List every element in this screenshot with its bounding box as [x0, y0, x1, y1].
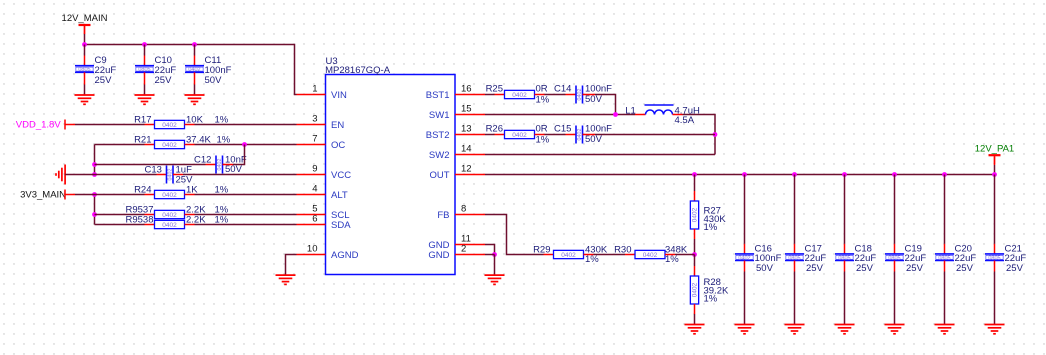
wire C15 right to SW2 column	[583, 134, 596, 136]
wire C18 bottom	[844, 261, 846, 272]
svg-text:0402: 0402	[561, 252, 576, 259]
svg-text:50V: 50V	[205, 75, 223, 86]
pin 7 OC left	[297, 144, 326, 146]
wire R29 to R30	[584, 254, 594, 256]
ground left of C13 (rotated)	[64, 165, 66, 185]
wire R21 to OC pin 7	[185, 144, 195, 146]
svg-text:0805: 0805	[838, 255, 850, 261]
wire gnd to C13	[65, 174, 156, 176]
svg-text:VCC: VCC	[331, 170, 351, 181]
node junction OUT rail at C19	[892, 172, 897, 177]
resistor R30 348K 1%	[635, 250, 665, 258]
svg-text:0805: 0805	[788, 255, 800, 261]
svg-text:R9538: R9538	[126, 215, 154, 226]
resistor R25 0R 1%	[505, 90, 535, 98]
svg-text:0402: 0402	[512, 92, 527, 99]
svg-text:0805: 0805	[888, 255, 900, 261]
svg-text:100nF: 100nF	[585, 124, 612, 135]
wire BST2 to R26	[485, 134, 495, 136]
wire 12V_MAIN vertical into top rail	[84, 26, 86, 34]
svg-text:1%: 1%	[704, 222, 718, 233]
op-amp U1 regulator U3 MP28167GQ-A body	[326, 75, 456, 275]
svg-text:AGND: AGND	[331, 250, 359, 261]
svg-text:25V: 25V	[155, 75, 173, 86]
pin 15 SW1 right	[455, 114, 485, 116]
wire 12V_PA1 into rail	[994, 156, 996, 165]
svg-text:0402: 0402	[738, 255, 750, 261]
svg-text:VDD_1.8V: VDD_1.8V	[16, 120, 62, 131]
svg-text:0805: 0805	[138, 67, 150, 73]
svg-text:R25: R25	[486, 84, 503, 95]
node junction OUT/R27	[692, 172, 697, 177]
wire R25 to C14	[535, 94, 545, 96]
svg-text:50V: 50V	[225, 164, 243, 175]
wire C9 top	[84, 45, 86, 56]
svg-text:0402: 0402	[188, 67, 200, 73]
svg-text:13: 13	[461, 124, 472, 135]
resistor R24 1K 1%	[155, 190, 185, 198]
wire C10 bottom	[144, 72, 146, 84]
wire C16 bottom	[744, 261, 746, 272]
svg-text:0402: 0402	[512, 132, 527, 139]
svg-text:0402: 0402	[162, 142, 177, 149]
svg-text:0402: 0402	[643, 252, 658, 259]
wire SW2 pin 14	[485, 154, 715, 156]
wire R24 to ALT pin 4	[185, 194, 195, 196]
svg-text:6: 6	[312, 214, 317, 225]
svg-text:SW1: SW1	[429, 110, 450, 121]
ground below C16	[735, 324, 755, 326]
wire R26 to C15	[535, 134, 545, 136]
wire C16 top	[744, 175, 746, 244]
pin 3 EN left	[297, 124, 326, 126]
capacitor C14 100nF 50V	[576, 86, 583, 104]
ground below C17	[785, 324, 805, 326]
wire R27 to FB node	[694, 229, 696, 239]
node junction SW1/C14	[613, 112, 618, 117]
svg-text:L1: L1	[625, 105, 636, 116]
node junction x94 C12	[92, 162, 97, 167]
wire C18 top	[844, 175, 846, 244]
wire C9 bottom	[84, 72, 86, 84]
svg-text:R29: R29	[533, 245, 550, 256]
resistor R21 37.4K 1%	[155, 140, 185, 148]
wire C21 top	[994, 175, 996, 244]
wire left 3V3 column x94	[94, 195, 96, 225]
ground below C11	[185, 94, 205, 96]
wire GND pin 2 to ground	[485, 254, 495, 256]
port 12V_PA1	[989, 154, 1001, 156]
svg-text:EN: EN	[331, 120, 344, 131]
wire column corner to R9538	[95, 224, 145, 226]
wire OUT to R27	[694, 175, 696, 192]
wire C17 top	[794, 175, 796, 244]
wire left column top corner to R21	[95, 144, 145, 146]
svg-text:VIN: VIN	[331, 90, 347, 101]
svg-text:0R: 0R	[536, 124, 548, 135]
svg-text:MP28167GQ-A: MP28167GQ-A	[325, 65, 391, 76]
svg-text:50V: 50V	[756, 263, 774, 274]
wire L1 right down to SW2	[673, 114, 683, 116]
svg-text:25V: 25V	[906, 263, 924, 274]
capacitor C11 100nF 50V	[185, 66, 204, 73]
node junction OUT rail at C16	[742, 172, 747, 177]
pin 2 GND right	[455, 254, 485, 256]
svg-text:OUT: OUT	[429, 170, 449, 181]
wire top 12V rail to VIN	[85, 45, 297, 95]
capacitor C19 22uF 25V	[885, 254, 904, 261]
svg-text:12: 12	[461, 164, 472, 175]
wire SW1 to L1	[485, 114, 635, 116]
svg-text:14: 14	[461, 144, 472, 155]
ground below C18	[835, 324, 855, 326]
capacitor C15 100nF 50V	[576, 126, 583, 144]
svg-text:R21: R21	[134, 135, 151, 146]
node junction x94 3V3 row	[92, 192, 97, 197]
svg-text:100nF: 100nF	[585, 84, 612, 95]
svg-text:1%: 1%	[536, 135, 550, 146]
wire C17 bottom	[794, 261, 796, 272]
pin 14 SW2 right	[455, 154, 485, 156]
capacitor C10 22uF 25V	[135, 66, 154, 73]
pin 10 AGND left	[297, 254, 326, 256]
node junction FB divider	[692, 252, 697, 257]
wire R9537 to SCL pin 5	[185, 214, 195, 216]
svg-text:4: 4	[312, 184, 317, 195]
ground below GND pins	[485, 274, 505, 276]
wire C20 bottom	[944, 261, 946, 272]
pin 12 OUT right	[455, 174, 485, 176]
svg-text:0805: 0805	[78, 67, 90, 73]
svg-text:10: 10	[307, 244, 318, 255]
pin 13 BST2 right	[455, 134, 485, 136]
svg-text:0402: 0402	[167, 169, 173, 181]
wire R9538 to SDA pin 6	[185, 224, 195, 226]
capacitor C13 1uF 25V	[167, 166, 174, 184]
ground below C19	[885, 324, 905, 326]
svg-text:25V: 25V	[806, 263, 824, 274]
svg-text:8: 8	[461, 204, 466, 215]
svg-text:25V: 25V	[95, 75, 113, 86]
svg-text:ALT: ALT	[331, 190, 348, 201]
wire C19 bottom	[894, 261, 896, 272]
wire C11 top	[194, 45, 196, 56]
node junction R21/C12 at OC	[242, 142, 247, 147]
svg-text:0402: 0402	[577, 89, 583, 101]
svg-text:25V: 25V	[1006, 263, 1024, 274]
svg-text:SDA: SDA	[331, 220, 351, 231]
svg-text:GND: GND	[428, 250, 449, 261]
wire C10 top	[144, 45, 146, 56]
wire left ground column x94	[94, 145, 96, 175]
node junction OUT rail at C21/12V_PA1	[992, 172, 997, 177]
svg-text:R26: R26	[486, 124, 503, 135]
ground below C20	[935, 324, 955, 326]
svg-text:SW2: SW2	[429, 150, 450, 161]
svg-text:R24: R24	[134, 185, 151, 196]
svg-text:16: 16	[461, 84, 472, 95]
ground below C10	[135, 94, 155, 96]
svg-text:C13: C13	[144, 165, 161, 176]
svg-text:25V: 25V	[956, 263, 974, 274]
svg-text:0402: 0402	[692, 282, 699, 297]
svg-text:0805: 0805	[988, 255, 1000, 261]
svg-text:15: 15	[461, 104, 472, 115]
node junction 12V rail at C9	[82, 42, 87, 47]
pin 4 ALT left	[297, 194, 326, 196]
node junction SW2 column / C15	[713, 132, 718, 137]
pin 16 BST1 right	[455, 94, 485, 96]
wire C19 top	[894, 175, 896, 244]
resistor R17 10K 1%	[155, 120, 185, 128]
node junction 12V rail at C11	[192, 42, 197, 47]
svg-text:0R: 0R	[536, 84, 548, 95]
svg-text:1%: 1%	[704, 294, 718, 305]
wire column to R9537	[95, 214, 145, 216]
node junction 12V rail at C10	[142, 42, 147, 47]
node junction x94 SCL row	[92, 212, 97, 217]
svg-text:0402: 0402	[217, 159, 223, 171]
svg-text:9: 9	[312, 164, 317, 175]
wire C14 down to SW1	[583, 94, 596, 96]
svg-text:7: 7	[312, 134, 317, 145]
node junction GND pins	[492, 252, 497, 257]
resistor R27 430K 1%	[690, 201, 698, 229]
wire 3V3_MAIN to R24	[75, 194, 145, 196]
ground below C9	[75, 94, 95, 96]
node junction OUT rail at C20	[942, 172, 947, 177]
svg-text:12V_PA1: 12V_PA1	[975, 144, 1014, 155]
wire FB node to R28	[694, 255, 696, 267]
pin 6 SDA left	[297, 224, 326, 226]
wire VDD_1.8V to R17	[75, 124, 145, 126]
ground below R28	[685, 324, 705, 326]
capacitor C18 22uF 25V	[835, 254, 854, 261]
pin 9 VCC left	[297, 174, 326, 176]
svg-text:OC: OC	[331, 140, 345, 151]
node junction OUT rail at C18	[842, 172, 847, 177]
svg-text:1%: 1%	[665, 254, 679, 265]
svg-text:BST1: BST1	[426, 90, 450, 101]
wire AGND pin 10 to ground	[286, 255, 297, 275]
wire C13 to VCC pin 9	[173, 174, 183, 176]
node junction x94 VCC row	[92, 172, 97, 177]
wire C11 bottom	[194, 72, 196, 84]
svg-text:0402: 0402	[162, 122, 177, 129]
svg-text:3V3_MAIN: 3V3_MAIN	[20, 190, 66, 201]
svg-text:50V: 50V	[585, 94, 603, 105]
svg-text:0402: 0402	[162, 212, 177, 219]
wire C21 bottom	[994, 261, 996, 272]
svg-text:0402: 0402	[577, 129, 583, 141]
resistor R29 430K 1%	[554, 250, 584, 258]
power port 12V_MAIN	[79, 24, 91, 26]
capacitor C20 22uF 25V	[935, 254, 954, 261]
svg-text:R17: R17	[134, 115, 151, 126]
svg-text:C14: C14	[554, 84, 571, 95]
pin 5 SCL left	[297, 214, 326, 216]
ground below C21	[985, 324, 1005, 326]
svg-text:0402: 0402	[162, 222, 177, 229]
capacitor C21 22uF 25V	[985, 254, 1004, 261]
svg-text:1%: 1%	[536, 95, 550, 106]
wire C12 right up to OC	[223, 164, 234, 166]
capacitor C12 10nF 50V	[216, 156, 223, 174]
wire FB pin 8 to R29	[485, 215, 544, 255]
svg-text:50V: 50V	[585, 134, 603, 145]
svg-text:0402: 0402	[162, 192, 177, 199]
svg-text:FB: FB	[437, 210, 449, 221]
capacitor C17 22uF 25V	[785, 254, 804, 261]
svg-text:3: 3	[312, 114, 317, 125]
svg-text:1%: 1%	[585, 254, 599, 265]
resistor R26 0R 1%	[505, 130, 535, 138]
resistor R28 39.2K 1%	[690, 276, 698, 304]
svg-text:0402: 0402	[692, 207, 699, 222]
resistor R9537 2.2K 1%	[155, 210, 185, 218]
resistor R9538 2.2K 1%	[155, 220, 185, 228]
svg-text:R30: R30	[614, 245, 631, 256]
svg-text:25V: 25V	[856, 263, 874, 274]
svg-text:BST2: BST2	[426, 130, 450, 141]
ground below AGND	[276, 274, 296, 276]
pin 8 FB right	[455, 214, 485, 216]
capacitor C9 22uF 25V	[75, 66, 94, 73]
pin 11 GND right	[455, 244, 485, 246]
node junction OUT rail at C17	[792, 172, 797, 177]
svg-text:C12: C12	[194, 155, 211, 166]
wire BST1 to R25	[485, 94, 495, 96]
inductor L1 4.7uH 4.5A	[646, 110, 673, 115]
pin 1 VIN left	[297, 94, 326, 96]
svg-text:2: 2	[461, 244, 466, 255]
svg-text:1: 1	[312, 84, 317, 95]
svg-text:C15: C15	[554, 124, 571, 135]
wire GND pin 11 down	[485, 245, 495, 255]
capacitor C16 100nF 50V	[735, 254, 754, 261]
svg-text:0805: 0805	[938, 255, 950, 261]
wire R17 to EN pin 3	[185, 124, 195, 126]
wire C12 left	[95, 164, 206, 166]
wire R30 to divider node	[665, 254, 675, 256]
svg-text:4.5A: 4.5A	[675, 115, 695, 126]
wire C20 top	[944, 175, 946, 244]
wire R28 to ground	[694, 304, 696, 314]
svg-text:12V_MAIN: 12V_MAIN	[62, 13, 108, 24]
wire OUT rail	[485, 174, 995, 176]
